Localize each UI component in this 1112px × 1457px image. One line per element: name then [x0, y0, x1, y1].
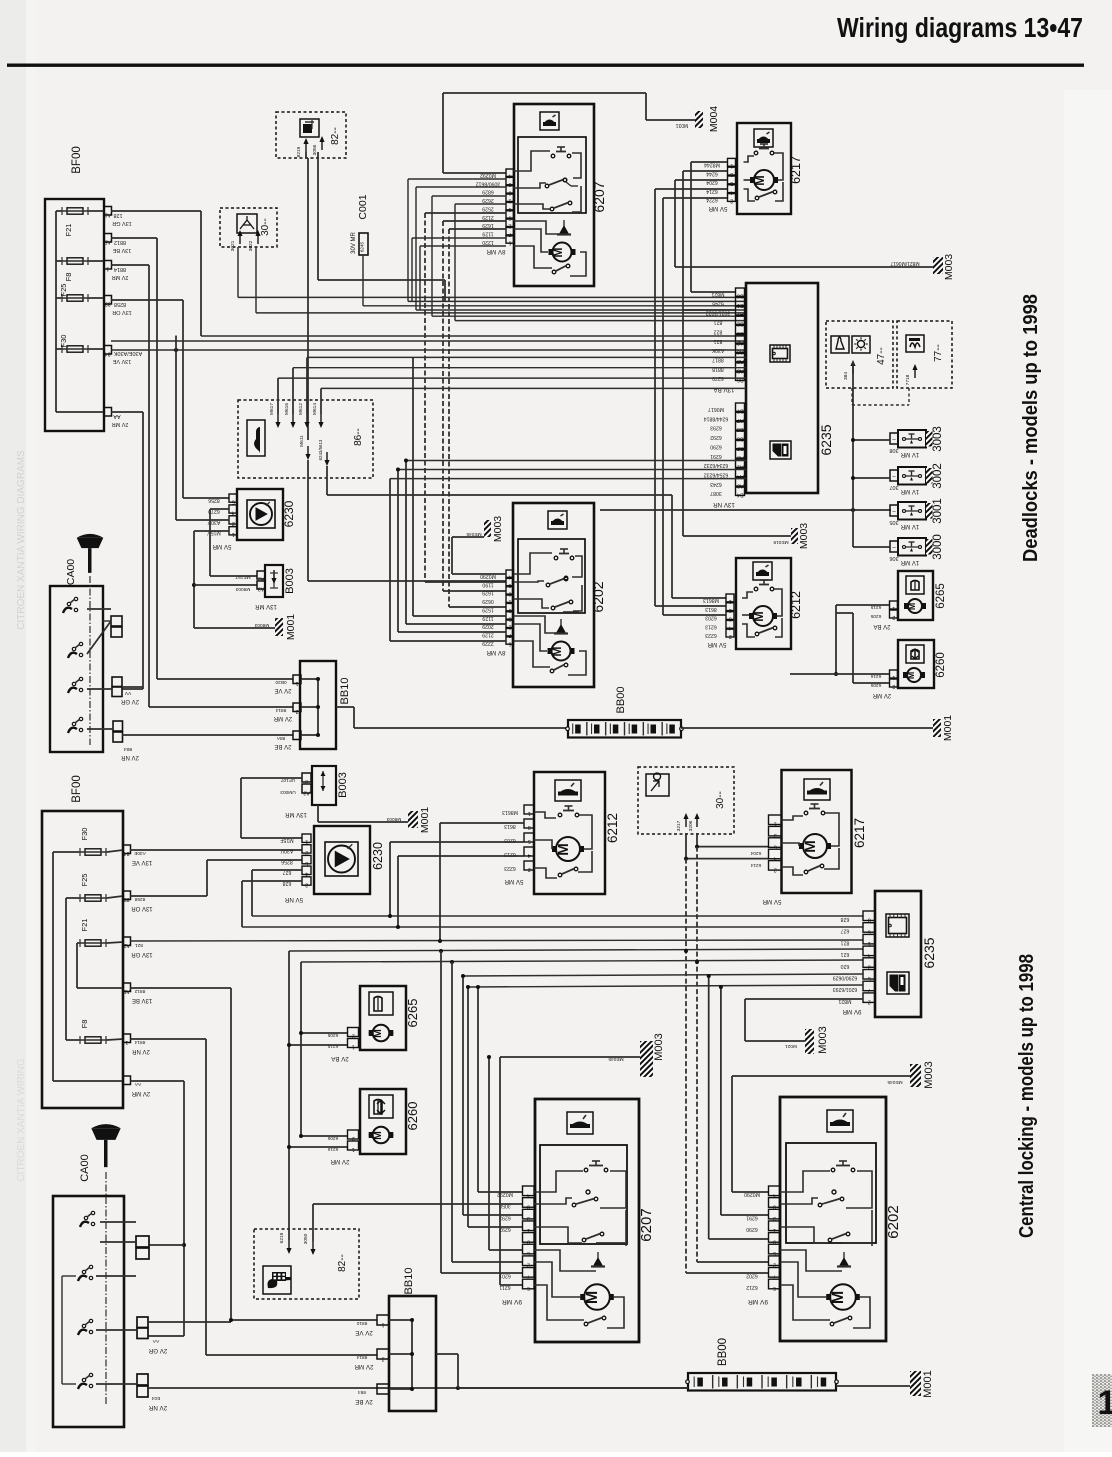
svg-text:6219: 6219 [279, 1232, 285, 1243]
svg-text:—: — [294, 736, 300, 742]
svg-text:M612: M612 [298, 403, 304, 415]
svg-text:6217: 6217 [852, 818, 867, 848]
svg-text:M0617: M0617 [708, 406, 724, 412]
svg-text:9: 9 [527, 1238, 530, 1244]
svg-text:5V MR: 5V MR [708, 205, 727, 212]
svg-text:6243/5613: 6243/5613 [318, 439, 323, 460]
svg-text:Central locking - models up to: Central locking - models up to 1998 [1016, 954, 1038, 1238]
svg-text:6291: 6291 [746, 1214, 758, 1220]
svg-text:6829: 6829 [482, 189, 494, 195]
svg-text:5V MR: 5V MR [762, 898, 781, 905]
svg-text:2129: 2129 [482, 214, 494, 220]
svg-text:6217: 6217 [789, 156, 803, 184]
svg-text:6292: 6292 [710, 434, 722, 440]
svg-text:CA00: CA00 [79, 1154, 91, 1182]
svg-text:M003: M003 [923, 1061, 935, 1089]
svg-text:0629: 0629 [482, 598, 494, 604]
svg-text:3050: 3050 [499, 1203, 511, 1209]
svg-text:F30: F30 [80, 828, 89, 841]
svg-text:821: 821 [135, 942, 143, 948]
svg-text:5: 5 [868, 975, 871, 981]
svg-text:6260: 6260 [405, 1102, 420, 1131]
svg-text:8219: 8219 [296, 146, 302, 157]
svg-text:4: 4 [528, 852, 531, 858]
svg-text:M0290: M0290 [744, 1191, 760, 1197]
svg-text:3000: 3000 [932, 534, 944, 560]
svg-text:6: 6 [527, 1285, 530, 1291]
svg-text:M616: M616 [284, 403, 290, 415]
svg-text:13V VE: 13V VE [112, 358, 131, 364]
svg-text:5V MR: 5V MR [504, 878, 523, 885]
svg-text:821: 821 [841, 939, 850, 945]
svg-text:8: 8 [527, 1203, 530, 1209]
svg-text:BB10: BB10 [339, 678, 351, 705]
svg-text:1: 1 [232, 531, 235, 537]
svg-text:13V BA: 13V BA [713, 386, 735, 393]
svg-text:9: 9 [773, 1238, 776, 1244]
svg-text:M611: M611 [299, 435, 305, 447]
svg-text:6202: 6202 [590, 581, 606, 612]
svg-text:8812: 8812 [134, 988, 145, 994]
svg-text:A30V: A30V [280, 848, 293, 854]
svg-text:6230: 6230 [371, 842, 385, 870]
svg-text:2: 2 [295, 708, 298, 714]
svg-text:6293: 6293 [710, 425, 722, 431]
svg-text:2V BE: 2V BE [274, 743, 291, 749]
svg-text:2V BE: 2V BE [355, 1398, 373, 1405]
svg-text:A30K: A30K [711, 347, 724, 353]
svg-text:5V MR: 5V MR [707, 641, 726, 648]
svg-text:8613: 8613 [504, 823, 516, 829]
svg-text:7: 7 [773, 1273, 776, 1279]
svg-text:BB00: BB00 [615, 687, 627, 714]
svg-text:5: 5 [527, 1250, 530, 1256]
svg-text:2: 2 [527, 1262, 530, 1268]
svg-text:2: 2 [774, 866, 777, 872]
svg-text:2V MR: 2V MR [273, 715, 292, 721]
svg-text:F25: F25 [59, 284, 68, 297]
svg-text:3050: 3050 [303, 1233, 309, 1244]
svg-text:0B20: 0B20 [275, 679, 287, 685]
svg-text:5: 5 [232, 498, 235, 504]
svg-text:M: M [830, 1291, 847, 1304]
svg-text:3: 3 [305, 881, 308, 887]
svg-text:6212: 6212 [605, 813, 620, 843]
svg-text:2V MR: 2V MR [131, 1090, 150, 1096]
svg-text:6: 6 [509, 640, 512, 646]
svg-text:6245: 6245 [360, 241, 365, 252]
svg-text:77--: 77-- [933, 344, 944, 362]
svg-text:E04: E04 [151, 1395, 160, 1401]
svg-text:6201/6293: 6201/6293 [833, 986, 858, 992]
svg-text:M: M [906, 672, 916, 679]
svg-text:M: M [555, 843, 572, 856]
svg-text:7: 7 [527, 1273, 530, 1279]
svg-text:627: 627 [841, 928, 850, 934]
svg-text:6212: 6212 [746, 1284, 758, 1290]
svg-text:6223: 6223 [705, 632, 717, 638]
svg-text:884: 884 [358, 1389, 366, 1395]
svg-text:6234/6232: 6234/6232 [704, 462, 729, 468]
svg-text:M0292: M0292 [497, 1191, 513, 1197]
svg-text:F21: F21 [80, 919, 89, 932]
svg-text:6230: 6230 [282, 500, 296, 527]
svg-text:–: – [106, 413, 109, 419]
svg-text:88A: 88A [276, 735, 285, 741]
svg-text:8V MR: 8V MR [486, 248, 505, 255]
svg-text:6: 6 [868, 928, 871, 934]
svg-text:6215: 6215 [327, 1043, 338, 1049]
svg-text:305: 305 [889, 519, 898, 525]
svg-text:6212: 6212 [789, 591, 803, 619]
svg-text:F25: F25 [80, 874, 89, 887]
svg-text:5: 5 [305, 860, 308, 866]
svg-text:B003: B003 [337, 772, 349, 798]
svg-text:13V MR: 13V MR [255, 603, 277, 609]
svg-text:8812: 8812 [114, 239, 126, 245]
svg-text:BB00: BB00 [717, 1338, 729, 1366]
svg-text:621: 621 [841, 951, 850, 957]
svg-text:A3: A3 [258, 586, 264, 592]
svg-text:307: 307 [889, 484, 898, 490]
svg-text:1: 1 [106, 266, 109, 272]
svg-text:A2: A2 [123, 942, 129, 948]
svg-text:2V VE: 2V VE [355, 1329, 373, 1336]
svg-text:8: 8 [868, 917, 871, 923]
svg-text:1: 1 [527, 1227, 530, 1233]
svg-text:6265: 6265 [935, 583, 947, 609]
svg-text:4: 4 [232, 509, 235, 515]
svg-text:M: M [550, 646, 564, 656]
svg-text:1V MR: 1V MR [900, 559, 919, 565]
svg-text:6223: 6223 [504, 865, 516, 871]
svg-text:M8003: M8003 [386, 816, 401, 822]
svg-text:3217: 3217 [676, 820, 682, 831]
svg-text:—: — [380, 1391, 386, 1397]
svg-text:VV: VV [124, 690, 131, 696]
svg-text:1529: 1529 [482, 606, 494, 612]
svg-text:8814: 8814 [356, 1354, 367, 1360]
svg-text:4: 4 [868, 952, 871, 958]
svg-text:8B4: 8B4 [123, 746, 132, 752]
svg-text:1: 1 [381, 1322, 384, 1328]
svg-text:M031: M031 [676, 122, 689, 128]
svg-text:2529: 2529 [482, 205, 494, 211]
svg-text:2629: 2629 [482, 197, 494, 203]
svg-text:13V OR: 13V OR [131, 905, 153, 911]
svg-text:6207: 6207 [638, 1208, 655, 1241]
svg-text:6260: 6260 [935, 652, 947, 678]
svg-text:3: 3 [868, 964, 871, 970]
svg-text:AA: AA [152, 1338, 159, 1344]
svg-text:1: 1 [352, 1044, 355, 1050]
svg-text:6202: 6202 [746, 1273, 758, 1279]
svg-text:F8: F8 [64, 273, 73, 282]
svg-text:M8613: M8613 [703, 597, 719, 603]
svg-text:2: 2 [381, 1356, 384, 1362]
svg-text:5: 5 [528, 838, 531, 844]
svg-text:F21: F21 [64, 224, 73, 237]
svg-text:9V MR: 9V MR [842, 1008, 861, 1015]
svg-text:ME018: ME018 [773, 539, 789, 545]
svg-text:M003: M003 [798, 523, 810, 549]
svg-text:C001: C001 [357, 194, 369, 219]
svg-text:M: M [752, 611, 766, 621]
svg-text:82--: 82-- [337, 1254, 348, 1272]
svg-text:3206: 3206 [688, 820, 694, 831]
svg-text:6291: 6291 [710, 453, 722, 459]
svg-text:M021: M021 [785, 1043, 797, 1049]
svg-text:8814: 8814 [134, 1039, 145, 1045]
svg-text:13V GR: 13V GR [112, 220, 132, 226]
svg-text:M003: M003 [492, 516, 504, 542]
svg-text:822: 822 [714, 328, 723, 334]
svg-text:2V NR: 2V NR [148, 1404, 167, 1411]
svg-text:1: 1 [528, 810, 531, 816]
svg-text:8613: 8613 [705, 606, 717, 612]
svg-text:3022: 3022 [248, 240, 254, 251]
svg-text:M001: M001 [419, 807, 431, 833]
svg-text:1220: 1220 [482, 239, 494, 245]
svg-text:1V MR: 1V MR [900, 451, 919, 457]
svg-text:8814: 8814 [114, 266, 126, 272]
svg-text:M8003: M8003 [254, 622, 269, 628]
svg-text:1: 1 [352, 1146, 355, 1152]
svg-text:8810: 8810 [356, 1320, 367, 1326]
svg-text:13V BE: 13V BE [112, 247, 131, 253]
svg-text:1129: 1129 [482, 230, 493, 236]
svg-text:ME045: ME045 [466, 531, 482, 537]
svg-text:30--: 30-- [260, 218, 271, 236]
svg-text:128: 128 [113, 212, 122, 218]
svg-text:M001: M001 [942, 715, 954, 741]
svg-text:CA00: CA00 [65, 559, 77, 585]
svg-text:2V MR: 2V MR [112, 421, 129, 427]
svg-text:AA: AA [134, 1081, 141, 1087]
svg-text:2: 2 [528, 866, 531, 872]
svg-text:8814: 8814 [275, 707, 286, 713]
svg-text:1: 1 [1098, 1384, 1112, 1422]
svg-text:3003: 3003 [932, 426, 944, 452]
svg-text:2V NR: 2V NR [131, 1048, 149, 1054]
svg-text:2: 2 [892, 614, 895, 620]
svg-text:2V NR: 2V NR [120, 754, 138, 760]
svg-text:306: 306 [889, 555, 898, 561]
svg-text:1: 1 [295, 680, 298, 686]
svg-text:3: 3 [528, 824, 531, 830]
svg-text:M004: M004 [708, 106, 720, 132]
svg-text:BF00: BF00 [71, 775, 83, 803]
svg-text:6292: 6292 [499, 1226, 511, 1232]
svg-text:M: M [373, 1029, 384, 1038]
svg-text:2V GR: 2V GR [148, 1347, 167, 1354]
svg-text:M: M [373, 1131, 384, 1140]
svg-text:6290: 6290 [710, 443, 722, 449]
svg-text:M: M [802, 840, 819, 853]
svg-text:384: 384 [843, 372, 849, 380]
svg-text:M003: M003 [653, 1033, 665, 1061]
svg-text:47--: 47-- [876, 347, 887, 365]
svg-text:CITROEN XANTIA WIRING DIAGRAMS: CITROEN XANTIA WIRING DIAGRAMS [16, 450, 27, 630]
svg-text:6290/0629: 6290/0629 [833, 975, 858, 981]
svg-text:2: 2 [730, 198, 733, 204]
svg-text:M: M [753, 175, 767, 185]
svg-text:13V NR: 13V NR [713, 501, 735, 508]
svg-text:5: 5 [773, 1250, 776, 1256]
svg-text:3021: 3021 [230, 240, 236, 251]
svg-text:2V VE: 2V VE [274, 687, 291, 693]
svg-text:ME157: ME157 [235, 574, 251, 580]
svg-text:84: 84 [124, 850, 130, 856]
svg-text:M: M [907, 603, 917, 610]
svg-text:1: 1 [773, 1227, 776, 1233]
svg-text:1629: 1629 [482, 222, 494, 228]
svg-text:3090/8612: 3090/8612 [476, 180, 501, 186]
svg-text:Deadlocks - models up to 1998: Deadlocks - models up to 1998 [1020, 294, 1042, 562]
svg-text:A30E: A30E [134, 850, 146, 856]
svg-text:2V GR: 2V GR [120, 698, 139, 704]
svg-text:8258: 8258 [134, 896, 145, 902]
svg-text:M8003: M8003 [235, 586, 250, 592]
svg-text:2: 2 [729, 633, 732, 639]
svg-text:A5: A5 [123, 988, 129, 994]
svg-text:2: 2 [892, 683, 895, 689]
svg-text:2V BA: 2V BA [873, 623, 890, 629]
svg-text:6: 6 [773, 1285, 776, 1291]
svg-text:1190: 1190 [482, 581, 493, 587]
svg-text:6243: 6243 [710, 481, 722, 487]
svg-text:M003: M003 [817, 1026, 829, 1054]
svg-text:AA: AA [113, 413, 121, 419]
svg-text:7718: 7718 [905, 374, 911, 385]
svg-text:8258: 8258 [114, 301, 126, 307]
svg-text:13V MR: 13V MR [285, 811, 307, 817]
svg-text:88: 88 [105, 301, 111, 307]
svg-text:2: 2 [868, 999, 871, 1005]
svg-text:M003: M003 [943, 254, 955, 280]
svg-text:6265: 6265 [405, 999, 420, 1028]
svg-text:6245: 6245 [712, 300, 724, 306]
svg-text:6293: 6293 [499, 1214, 511, 1220]
svg-text:M001: M001 [285, 614, 297, 640]
svg-text:6254/6232: 6254/6232 [704, 471, 729, 477]
svg-text:30V MR: 30V MR [351, 232, 357, 254]
svg-text:5V MR: 5V MR [212, 543, 231, 550]
svg-text:6235: 6235 [921, 937, 937, 968]
svg-text:6205: 6205 [870, 613, 881, 619]
svg-text:2V MR: 2V MR [112, 274, 129, 280]
svg-text:8256: 8256 [281, 858, 293, 864]
svg-text:6213: 6213 [705, 623, 717, 629]
svg-text:8818: 8818 [712, 366, 724, 372]
svg-text:F8: F8 [80, 1020, 89, 1029]
svg-text:6235: 6235 [818, 424, 834, 455]
svg-text:2: 2 [352, 1033, 355, 1039]
svg-text:86--: 86-- [353, 428, 364, 446]
svg-text:M15F: M15F [280, 837, 293, 843]
svg-text:13V VE: 13V VE [132, 859, 152, 865]
svg-text:9V MR: 9V MR [502, 1298, 522, 1305]
svg-text:B003: B003 [284, 568, 296, 594]
svg-text:4: 4 [527, 1192, 530, 1198]
svg-text:2V MR: 2V MR [872, 692, 891, 698]
svg-text:620: 620 [841, 963, 850, 969]
svg-text:M: M [584, 1291, 601, 1304]
svg-text:B4: B4 [737, 492, 744, 498]
svg-text:M614: M614 [312, 403, 318, 415]
svg-text:M8613: M8613 [502, 809, 518, 815]
svg-text:3087: 3087 [710, 490, 722, 496]
svg-text:F30: F30 [59, 335, 68, 348]
svg-text:821: 821 [714, 338, 723, 344]
svg-text:M821/M0617: M821/M0617 [890, 260, 919, 266]
svg-text:8256: 8256 [208, 497, 220, 503]
svg-text:6211: 6211 [499, 1284, 510, 1290]
svg-text:8: 8 [773, 1203, 776, 1209]
svg-text:–: – [125, 1081, 128, 1087]
svg-text:308: 308 [889, 447, 898, 453]
svg-text:821: 821 [714, 319, 723, 325]
svg-text:3056: 3056 [312, 144, 318, 155]
svg-text:6203: 6203 [705, 615, 717, 621]
svg-text:13V GR: 13V GR [131, 951, 153, 957]
svg-text:4: 4 [305, 871, 308, 877]
svg-text:6290: 6290 [746, 1226, 758, 1232]
svg-text:1V MR: 1V MR [900, 523, 919, 529]
svg-text:1V MR: 1V MR [900, 488, 919, 494]
svg-text:2: 2 [232, 520, 235, 526]
svg-text:3001: 3001 [932, 498, 944, 524]
svg-text:82--: 82-- [330, 127, 341, 145]
svg-text:3: 3 [773, 1215, 776, 1221]
svg-text:BF00: BF00 [71, 146, 83, 174]
svg-text:A5: A5 [104, 239, 110, 245]
svg-text:A30E/A30K: A30E/A30K [113, 350, 142, 356]
svg-text:1: 1 [125, 1039, 128, 1045]
svg-text:6201: 6201 [499, 1273, 511, 1279]
svg-text:4: 4 [773, 1192, 776, 1198]
svg-text:6244/8814: 6244/8814 [704, 415, 729, 421]
svg-text:A3: A3 [303, 790, 309, 796]
svg-text:8V MR: 8V MR [486, 649, 505, 656]
svg-text:CITROEN XANTIA WIRING: CITROEN XANTIA WIRING [16, 1058, 27, 1182]
svg-text:6214: 6214 [750, 862, 761, 868]
svg-text:6207: 6207 [591, 181, 607, 212]
svg-text:7: 7 [868, 987, 871, 993]
svg-text:Wiring diagrams 13•47: Wiring diagrams 13•47 [837, 12, 1083, 43]
svg-text:ME045: ME045 [887, 1079, 903, 1085]
svg-text:2: 2 [773, 1262, 776, 1268]
svg-text:2: 2 [352, 1135, 355, 1141]
svg-text:2V MR: 2V MR [330, 1158, 349, 1165]
svg-text:88: 88 [124, 896, 130, 902]
svg-text:M0292: M0292 [480, 172, 496, 178]
svg-text:2: 2 [305, 849, 308, 855]
svg-text:6202: 6202 [885, 1205, 902, 1238]
svg-text:6204: 6204 [750, 850, 761, 856]
svg-text:3002: 3002 [932, 463, 944, 489]
svg-text:5V NR: 5V NR [284, 896, 303, 903]
svg-text:1: 1 [305, 839, 308, 845]
svg-text:UM003: UM003 [280, 789, 296, 795]
svg-text:9V MR: 9V MR [748, 1298, 768, 1305]
svg-text:2V MR: 2V MR [354, 1363, 373, 1370]
svg-text:1: 1 [868, 940, 871, 946]
svg-text:M: M [551, 247, 565, 257]
svg-text:M617: M617 [269, 403, 275, 415]
svg-text:M001: M001 [922, 1370, 934, 1398]
svg-text:2V BA: 2V BA [330, 1055, 348, 1062]
